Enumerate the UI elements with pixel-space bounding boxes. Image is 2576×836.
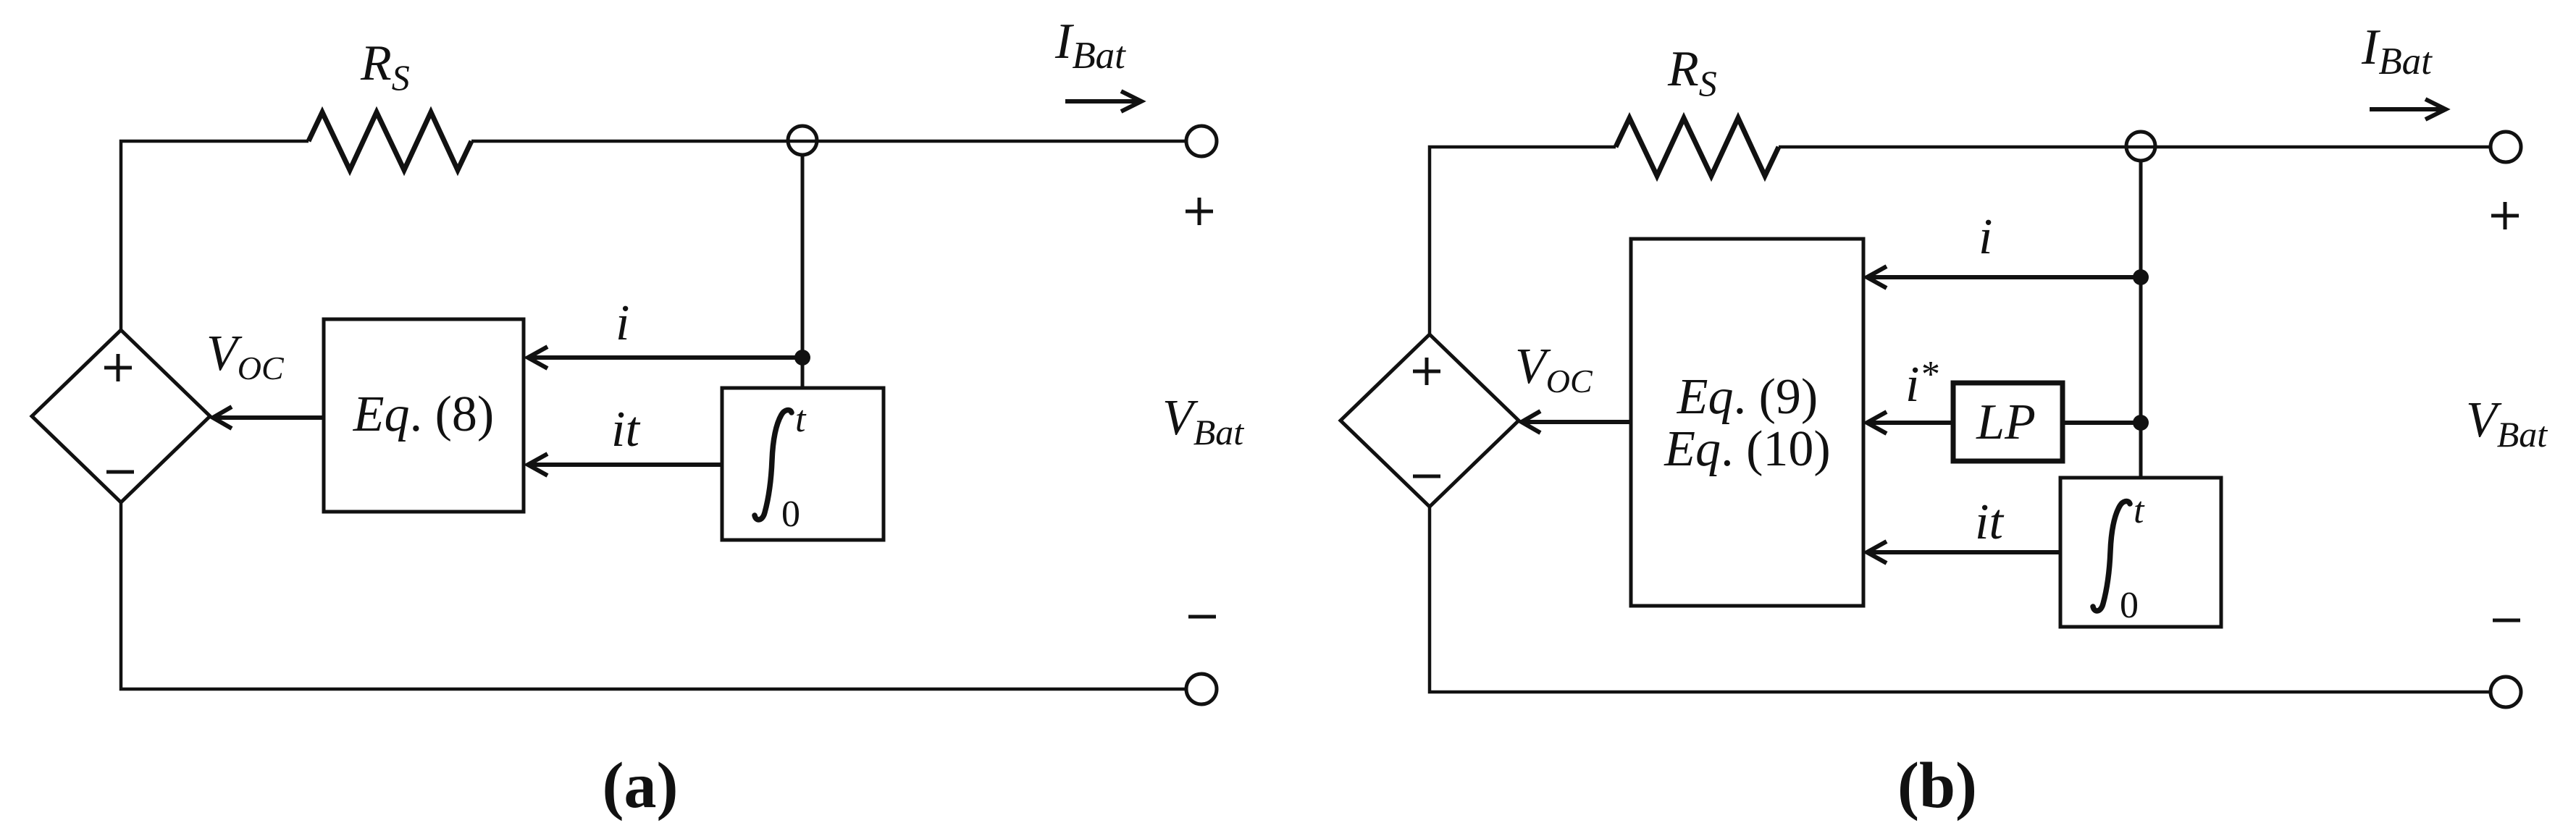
wire: (a) vertical drop from junction to integrator [801,155,805,388]
integrator block (a) [722,388,884,540]
integrator block (b) [2060,478,2221,627]
label minus inside diamond (b) [1413,475,1440,478]
arrow: (a) IBat current direction [1065,91,1141,111]
svg-text:t: t [2134,490,2145,531]
label integral 0 to t (a) [755,410,792,520]
block Eq.(8) (a) [324,319,524,512]
label minus inside diamond (a) [106,470,134,474]
arrow: i* from LP into Eq block (b) [1867,412,1953,434]
node: (b) junction dot at LP tap [2133,415,2149,431]
node: (a) junction dot on i tap [794,350,810,366]
svg-text:0: 0 [781,494,800,535]
label minus at (b) negative terminal [2493,619,2520,622]
arrow: i input into Eq block (b) [1867,266,2141,288]
terminal: (a) negative terminal circle [1186,674,1217,704]
label + inside diamond (b) [1413,358,1440,385]
arrow: VOC from Eq.(8) to diamond (a) [213,407,324,428]
svg-text:t: t [795,399,807,440]
svg-text:it: it [611,402,640,457]
arrow: (b) IBat current direction [2370,99,2446,119]
svg-text:LP: LP [1976,394,2036,450]
node: (b) junction circle on top rail [2126,132,2155,161]
wire: (b) vertical drop from junction to integrator [2139,161,2143,478]
svg-text:Eq. (10): Eq. (10) [1664,421,1830,477]
svg-text:(a): (a) [603,750,679,822]
arrow: VOC from Eq block to diamond (b) [1522,411,1631,433]
terminal: (b) negative terminal circle [2491,677,2521,707]
node: (b) junction dot at i tap [2133,269,2149,285]
wire: (a) top-left rail segment from left corner to resistor [121,141,309,332]
resistor RS (b) zigzag [1616,118,1779,176]
dependent source diamond (a) [32,330,210,502]
svg-text:it: it [1975,494,2004,550]
resistor RS (a) zigzag [309,112,471,170]
arrow: it input into Eq block (b) [1867,541,2060,563]
wire: (a) bottom rail [121,502,1186,689]
terminal: (a) positive terminal circle [1186,126,1217,156]
wire: (a) top rail from resistor to positive terminal [471,140,1186,143]
label integral 0 to t (b) [2093,501,2130,611]
svg-text:i: i [1979,209,1992,265]
node: (a) junction circle on top rail [788,126,817,155]
arrow: it input into Eq.(8) (a) [528,454,722,476]
wire: (b) top-left rail segment from left corner to resistor [1430,147,1616,335]
label minus at (a) negative terminal [1188,615,1216,619]
wire: (b) bottom rail [1430,507,2491,692]
low-pass block LP (b) [1953,383,2063,461]
svg-text:Eq. (9): Eq. (9) [1677,369,1818,425]
label + inside diamond (a) [104,354,132,381]
svg-text:i: i [616,295,629,351]
label + at (a) positive terminal [1186,198,1213,225]
svg-text:0: 0 [2120,585,2139,626]
svg-text:(b): (b) [1897,750,1977,822]
wire: from vertical drop to LP input (b) [2063,421,2141,425]
label + at (b) positive terminal [2491,202,2519,229]
svg-text:Eq. (8): Eq. (8) [353,387,494,442]
arrow: i input into Eq.(8) (a) [528,347,802,368]
block Eq.(9) Eq.(10) (b) [1631,239,1863,606]
terminal: (b) positive terminal circle [2491,132,2521,162]
wire: (b) top rail from resistor to positive terminal [1779,145,2491,149]
dependent source diamond (b) [1341,334,1519,507]
